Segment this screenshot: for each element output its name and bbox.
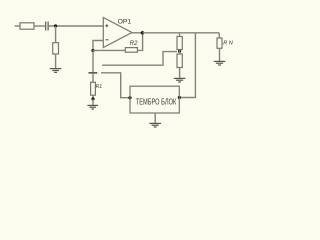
resistor divider upper (177, 37, 182, 50)
resistor RN (load) (217, 38, 222, 48)
resistor divider lower (177, 54, 182, 68)
ground (divider) (174, 78, 186, 82)
wire R2 to output node (137, 33, 142, 51)
wire rail to divider resistor upper (179, 33, 181, 37)
node: tone block right terminal (178, 96, 181, 99)
ground (input bias) (50, 69, 62, 73)
capacitor C1 (input coupling) (46, 22, 48, 31)
svg-text:R N: R N (223, 40, 234, 46)
wire capacitor C2 to R1 (92, 73, 94, 83)
node: divider junction (178, 50, 181, 53)
svg-text:OP1: OP1 (118, 18, 132, 25)
wire divider lower to ground (179, 68, 181, 79)
ground (tone block) (149, 123, 161, 127)
wire R-bias to ground (55, 54, 57, 68)
svg-text:R2: R2 (130, 41, 138, 47)
wire feedback node to R2 (93, 49, 125, 51)
wire RN to ground (219, 48, 221, 61)
wire tap B (to tone block left) (101, 73, 130, 98)
wire op-amp inverting input (93, 41, 103, 51)
svg-text:ТЕМБРО БЛОК: ТЕМБРО БЛОК (136, 98, 177, 107)
node: R1 ground junction (91, 97, 94, 100)
wire R1 to ground node (92, 95, 94, 99)
wire tone block to ground (154, 113, 156, 123)
wire feedback node down to capacitor C2 (92, 51, 94, 73)
wire op-amp output (132, 32, 142, 34)
wire rail corner down to RN (218, 33, 220, 38)
op-amp minus pin mark (106, 39, 109, 41)
wire riser: tone block right to output rail (179, 33, 195, 98)
node: feedback junction (91, 49, 94, 52)
input terminal wire (15, 25, 21, 27)
tone block box (130, 86, 179, 113)
op-amp plus pin mark (105, 24, 108, 27)
resistor R2 (125, 48, 137, 53)
svg-text:R1: R1 (96, 84, 103, 90)
resistor R-in (series input) (20, 23, 34, 29)
node: tone block left terminal (128, 96, 131, 99)
wire ground node down (92, 99, 94, 105)
wire tap A (lower op-amp area to divider junction) (102, 52, 177, 66)
op-amp OP1 triangle (103, 18, 132, 48)
capacitor C2 (feedback, plate crossing) (89, 72, 98, 74)
ground (RN) (214, 61, 226, 65)
wire divider junction (179, 50, 181, 55)
resistor R1 (91, 82, 96, 95)
node: output junction (141, 31, 144, 34)
ground (R1) (87, 105, 98, 109)
node: input junction (54, 24, 57, 27)
wire capacitor to op-amp noninverting input (49, 25, 104, 27)
wire output rail (142, 32, 219, 34)
resistor R-bias to ground (53, 43, 59, 54)
wire input node down (55, 26, 57, 43)
wire resistor to capacitor (34, 25, 45, 27)
